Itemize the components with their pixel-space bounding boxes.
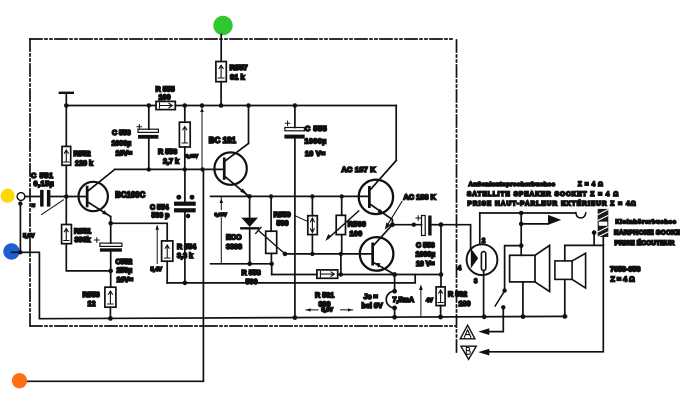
svg-text:560: 560 bbox=[277, 219, 289, 228]
wire earphone socket link bbox=[565, 233, 604, 246]
resistor R556 bbox=[179, 106, 190, 170]
potentiometer R558 bbox=[256, 196, 285, 274]
svg-text:500: 500 bbox=[246, 277, 258, 286]
wire stub to switch contact triangle bbox=[521, 213, 548, 246]
junction speaker1 top bbox=[519, 243, 524, 248]
wire AC188K emitter to current loop bbox=[394, 275, 396, 292]
wire output to jack tip bbox=[441, 225, 471, 249]
svg-text:PRISE ÉCOUTEUR: PRISE ÉCOUTEUR bbox=[615, 238, 675, 247]
svg-text:120 k: 120 k bbox=[75, 158, 93, 167]
resistor R552 bbox=[62, 106, 71, 225]
wire input to C551 bbox=[25, 196, 40, 198]
svg-text:Z = 4 Ω: Z = 4 Ω bbox=[578, 182, 604, 188]
resistor R554 bbox=[162, 241, 173, 283]
svg-text:100: 100 bbox=[350, 229, 363, 238]
dash-dot chassis border right bbox=[456, 40, 458, 353]
svg-text:0,65V: 0,65V bbox=[215, 212, 228, 217]
svg-text:PRISE HAUT-PARLEUR EXTÉRIEUR Z: PRISE HAUT-PARLEUR EXTÉRIEUR Z = 4Ω bbox=[468, 199, 637, 208]
resistor R555 bbox=[156, 101, 175, 109]
junction dots on collector wire bbox=[147, 167, 205, 171]
svg-text:R 558: R 558 bbox=[242, 268, 261, 277]
capacitor C554 bbox=[174, 169, 196, 283]
svg-text:SATELLITE SPEAKER SOCKET Z = 4: SATELLITE SPEAKER SOCKET Z = 4 Ω bbox=[467, 191, 619, 198]
node input signal terminal (yellow) bbox=[1, 189, 15, 203]
wire BC181 collector to +rail bbox=[248, 106, 250, 144]
svg-text:C 553: C 553 bbox=[112, 130, 131, 137]
measure 0,65V across diode bbox=[220, 198, 222, 264]
svg-text:5,9V: 5,9V bbox=[23, 233, 35, 239]
svg-text:91 k: 91 k bbox=[230, 73, 246, 82]
wire R557 to +rail bbox=[220, 82, 222, 106]
jack switch spring contact hook bbox=[576, 213, 586, 218]
svg-text:1000µ: 1000µ bbox=[305, 137, 327, 146]
node external terminal (orange) bbox=[12, 373, 27, 388]
svg-text:R557: R557 bbox=[230, 63, 248, 72]
junction R558 bottom corner bbox=[270, 262, 274, 266]
terminal A triangle bbox=[460, 325, 475, 339]
svg-text:10V=: 10V= bbox=[117, 277, 134, 284]
resistor R561 bbox=[317, 270, 338, 278]
input jack terminal symbol bbox=[17, 193, 25, 201]
wire +rail left part bbox=[66, 105, 156, 107]
wire diode bottom rail bbox=[211, 263, 272, 265]
svg-text:3393: 3393 bbox=[226, 242, 242, 251]
earphone jack socket U1 bbox=[467, 244, 498, 275]
wire AC188K base rail bbox=[285, 253, 372, 255]
svg-text:R560: R560 bbox=[348, 220, 366, 229]
variable resistor R560 bbox=[325, 196, 359, 274]
resistor R553 bbox=[105, 287, 116, 318]
junction base bias node bbox=[64, 194, 69, 199]
arrowhead to terminal A bbox=[478, 328, 489, 335]
junction amp output node bbox=[390, 222, 395, 227]
junction C554 on lower rail bbox=[183, 281, 188, 286]
svg-text:R 562: R 562 bbox=[448, 289, 467, 298]
svg-text:C552: C552 bbox=[116, 259, 133, 266]
transistor AC188K bbox=[360, 225, 395, 275]
arrowhead to terminal B bbox=[478, 349, 489, 356]
wire BC109C collector to BC181 base bbox=[115, 168, 224, 170]
svg-text:250µ: 250µ bbox=[117, 268, 133, 275]
jack switch moving contact triangle bbox=[548, 215, 561, 225]
svg-text:180: 180 bbox=[459, 299, 471, 308]
svg-text:560 p: 560 p bbox=[152, 212, 170, 219]
junction dots on AC188K base rail bbox=[283, 252, 343, 257]
junction R554 tap on emitter bbox=[108, 221, 113, 226]
wire blue terminal to ground rail bbox=[12, 252, 40, 318]
node input ground terminal (blue) bbox=[3, 243, 19, 259]
junction dots speaker feed bbox=[519, 211, 524, 216]
svg-text:Außenlautsprecherbuchse: Außenlautsprecherbuchse bbox=[469, 182, 556, 188]
measure 3,9V dimension bbox=[306, 309, 353, 311]
measure 5,4V bbox=[156, 226, 158, 264]
svg-text:BC 181: BC 181 bbox=[209, 136, 237, 145]
svg-text:1000µ: 1000µ bbox=[112, 140, 132, 147]
node battery plus terminal (green) bbox=[213, 16, 232, 35]
capacitor C551 bbox=[40, 190, 50, 207]
svg-text:0,15µ: 0,15µ bbox=[34, 179, 55, 188]
transistor BC181 bbox=[214, 143, 248, 196]
svg-text:R 554: R 554 bbox=[177, 242, 196, 251]
switch jack break contact lever bbox=[502, 288, 506, 292]
wire feedback lower rail C554/R554 to emitter bbox=[167, 275, 415, 283]
junction output wire bbox=[412, 223, 416, 227]
svg-text:100: 100 bbox=[159, 93, 171, 102]
svg-text:1000µ: 1000µ bbox=[416, 252, 436, 259]
svg-text:10V=: 10V= bbox=[116, 151, 133, 158]
svg-text:5,4V: 5,4V bbox=[151, 267, 163, 273]
measure 0,65V across R556 bbox=[201, 106, 203, 170]
svg-text:ECO: ECO bbox=[226, 232, 242, 241]
svg-text:7059-056: 7059-056 bbox=[610, 264, 640, 273]
wire R554 feedback tap bbox=[111, 223, 168, 241]
wire switch branch bbox=[505, 246, 522, 290]
svg-text:bei 9V: bei 9V bbox=[362, 301, 383, 310]
svg-text:390k: 390k bbox=[75, 235, 91, 244]
wire supply from green terminal down to R557 bbox=[220, 35, 222, 62]
wire speaker feed top rail bbox=[480, 212, 576, 214]
svg-text:AC 187 K: AC 187 K bbox=[341, 165, 376, 174]
svg-text:10 V=: 10 V= bbox=[416, 261, 435, 268]
resistor R557 bbox=[216, 62, 226, 82]
junction dots on driver base rail bbox=[247, 194, 344, 199]
svg-text:10 V=: 10 V= bbox=[305, 149, 325, 158]
dash-dot chassis border left bbox=[29, 39, 31, 326]
svg-text:C 555: C 555 bbox=[305, 124, 327, 133]
wire +rail right part bbox=[175, 105, 396, 107]
svg-text:2: 2 bbox=[482, 239, 486, 245]
wire switch to terminal A bbox=[489, 307, 503, 331]
loudspeaker LS1 bbox=[510, 245, 550, 316]
ground rail bbox=[39, 316, 566, 318]
svg-text:R 561: R 561 bbox=[315, 290, 334, 299]
earphone speaker LS2 bbox=[555, 245, 586, 316]
capacitor C553 bbox=[137, 106, 158, 170]
svg-text:C 556: C 556 bbox=[416, 242, 435, 249]
junction dots on +rail bbox=[64, 103, 297, 108]
wire input sleeve down bbox=[19, 204, 21, 253]
resistor R562 bbox=[436, 287, 445, 317]
svg-text:2,7 k: 2,7 k bbox=[163, 156, 179, 165]
svg-text:12: 12 bbox=[88, 299, 96, 308]
wire C556 output down to R562 bbox=[440, 225, 442, 287]
transistor BC109C bbox=[79, 169, 115, 216]
svg-text:0,65V: 0,65V bbox=[186, 154, 199, 159]
svg-text:Z = 4 Ω: Z = 4 Ω bbox=[611, 274, 635, 283]
svg-text:AC 188 K: AC 188 K bbox=[403, 192, 436, 201]
junction input sleeve / ground wire bbox=[18, 250, 22, 254]
junction dots emitter rail bbox=[339, 272, 444, 277]
svg-text:3,9V: 3,9V bbox=[322, 308, 334, 314]
junction R551 / emitter chain bbox=[108, 269, 113, 274]
svg-text:Jc =: Jc = bbox=[364, 292, 378, 301]
diode ECO 3393 bbox=[241, 196, 258, 263]
svg-text:BC109C: BC109C bbox=[115, 190, 145, 199]
svg-text:3: 3 bbox=[474, 279, 478, 285]
svg-text:4: 4 bbox=[458, 266, 462, 272]
junction C556 output bbox=[439, 222, 444, 227]
terminal T to on/off switch bbox=[60, 92, 73, 94]
svg-text:C 554: C 554 bbox=[150, 204, 169, 211]
junction dots on ground rail bbox=[108, 314, 567, 321]
measure 4V arrow bbox=[420, 286, 422, 317]
svg-text:M: M bbox=[32, 203, 36, 208]
wire jack pin2 bbox=[479, 213, 481, 245]
wire driver base rail (BC181 emitter to AC187K base) bbox=[211, 195, 370, 197]
junction diode bottom bbox=[247, 262, 252, 267]
wire jack pin3 to ground bbox=[483, 271, 485, 317]
wire to terminal B bbox=[489, 245, 603, 351]
transistor AC187K bbox=[359, 106, 397, 225]
current measure loop 7,5mA bbox=[386, 289, 397, 317]
capacitor C552 bbox=[95, 217, 122, 288]
svg-text:EARPHONE SOCKET: EARPHONE SOCKET bbox=[614, 230, 680, 237]
svg-text:R 556: R 556 bbox=[158, 147, 177, 156]
dash-dot chassis border top bbox=[30, 38, 455, 40]
earphone socket hatched block bbox=[598, 209, 609, 237]
wire C551 to BC109C base bbox=[50, 196, 85, 198]
svg-text:4V: 4V bbox=[426, 298, 433, 304]
svg-text:Kleinhörerbuchse: Kleinhörerbuchse bbox=[616, 220, 677, 226]
resistor R559 bbox=[308, 196, 318, 254]
wire output node to C556 bbox=[392, 224, 421, 226]
svg-text:R551: R551 bbox=[74, 226, 91, 235]
terminal B triangle bbox=[461, 346, 476, 359]
svg-text:R552: R552 bbox=[74, 149, 91, 158]
svg-text:c: c bbox=[187, 213, 190, 219]
capacitor C555 bbox=[284, 106, 304, 318]
wire emitter feedback rail bbox=[272, 274, 441, 276]
wire orange tap from BC181 base node bbox=[28, 169, 204, 381]
svg-text:7,5mA: 7,5mA bbox=[393, 295, 415, 304]
dash-dot chassis border bottom bbox=[30, 325, 456, 327]
svg-text:R553: R553 bbox=[83, 290, 100, 299]
resistor R551 bbox=[62, 225, 111, 271]
capacitor C556 bbox=[416, 216, 441, 236]
